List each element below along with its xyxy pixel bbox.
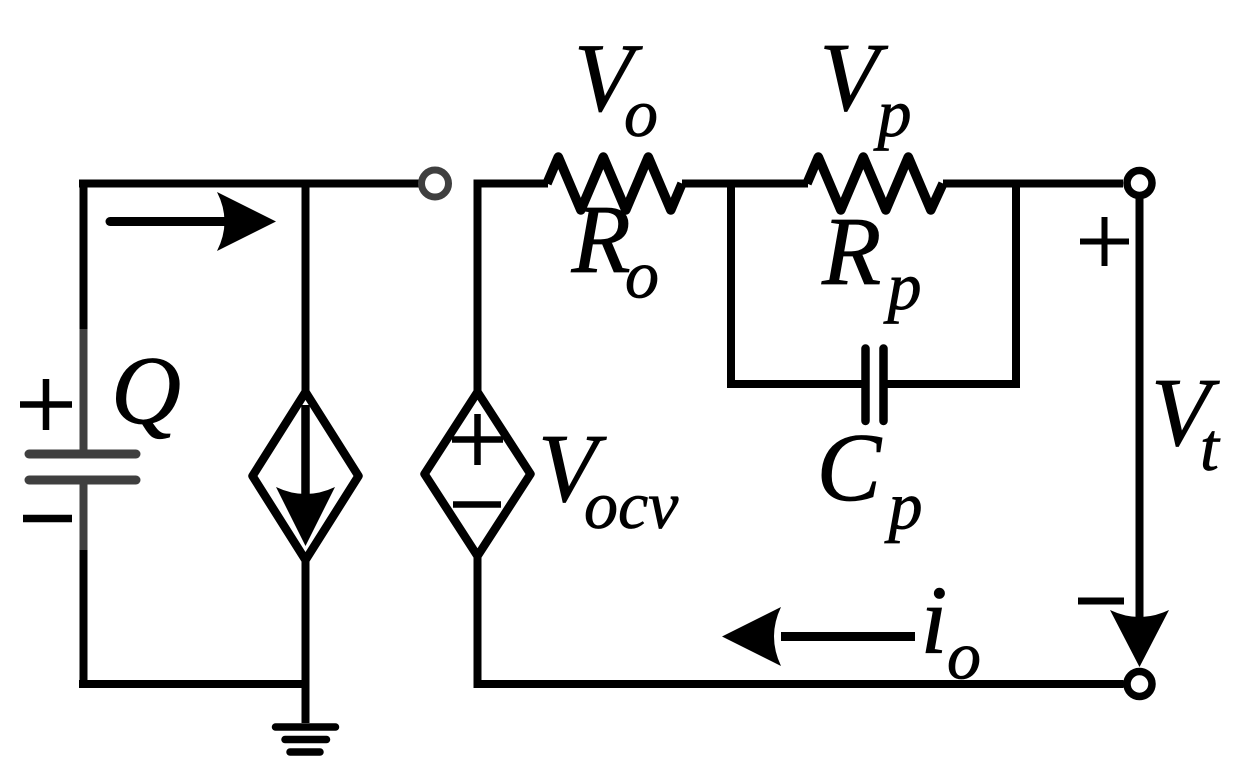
svg-text:p: p bbox=[884, 248, 922, 324]
current i_o arrow shaft bbox=[781, 632, 915, 641]
right vertical wire bbox=[1136, 195, 1144, 625]
node terminal circle (gray, top left) bbox=[422, 170, 449, 197]
wire top-left horizontal (node A to terminal) bbox=[79, 180, 419, 188]
resistor R_p zigzag bbox=[807, 157, 943, 210]
svg-text:C: C bbox=[817, 414, 883, 521]
capacitor C_p left plate bbox=[861, 349, 870, 422]
svg-text:Q: Q bbox=[111, 337, 181, 444]
terminal circle top right (black) bbox=[1127, 171, 1152, 196]
minus sign of capacitor Q bbox=[23, 515, 72, 523]
RC block right vertical branch and bottom wire to C_p bbox=[888, 180, 1017, 385]
svg-text:t: t bbox=[1200, 409, 1221, 485]
wire left vertical black lower segment bbox=[80, 550, 88, 684]
voltage source V_ocv diamond bbox=[425, 392, 531, 556]
resistor R_o zigzag bbox=[547, 157, 682, 210]
wire left vertical gray upper segment (to capacitor Q) bbox=[80, 329, 88, 452]
wire from R_p to right terminal bbox=[943, 180, 1123, 188]
current direction arrow (top left) shaft bbox=[110, 217, 228, 226]
minus sign inside V_ocv bbox=[453, 501, 501, 508]
svg-text:p: p bbox=[885, 468, 923, 544]
bottom wire left loop bbox=[79, 680, 310, 688]
dependent current source diamond bbox=[253, 392, 359, 560]
voltage source V_ocv stem bottom bbox=[474, 554, 482, 684]
wire left vertical gray lower segment bbox=[80, 482, 88, 550]
svg-text:ocv: ocv bbox=[584, 467, 679, 543]
ground bar 3 bbox=[290, 748, 320, 756]
plus sign of capacitor Q bbox=[20, 379, 72, 430]
svg-text:p: p bbox=[874, 75, 912, 151]
wire left vertical black upper segment bbox=[80, 184, 88, 330]
capacitor Q bottom plate bbox=[29, 476, 136, 485]
RC block left vertical branch and bottom wire to C_p bbox=[731, 180, 862, 385]
minus sign of V_t bbox=[1078, 598, 1124, 605]
ground bar 1 bbox=[276, 723, 336, 731]
svg-text:o: o bbox=[624, 75, 658, 151]
dependent current source stem bottom bbox=[302, 558, 310, 723]
svg-text:o: o bbox=[947, 618, 981, 694]
svg-text:i: i bbox=[921, 567, 948, 674]
arrow head down to bottom terminal bbox=[1110, 610, 1169, 667]
capacitor C_p right plate bbox=[879, 349, 888, 422]
plus sign inside V_ocv bbox=[452, 414, 503, 465]
terminal circle bottom right (black) bbox=[1127, 672, 1152, 697]
dependent current source inner arrow shaft bbox=[301, 405, 310, 498]
current direction arrow head bbox=[217, 192, 276, 251]
bottom wire right loop bbox=[474, 680, 1124, 688]
dependent current source stem top bbox=[302, 180, 310, 395]
capacitor Q top plate bbox=[29, 450, 136, 459]
wire top from V_ocv corner to resistor Ro bbox=[474, 180, 549, 188]
svg-text:o: o bbox=[625, 237, 659, 313]
svg-text:R: R bbox=[571, 186, 631, 293]
dependent current source inner arrow head bbox=[276, 487, 335, 546]
plus sign of V_t bbox=[1080, 217, 1129, 266]
current i_o arrow head bbox=[722, 607, 781, 666]
voltage source V_ocv stem top bbox=[474, 180, 482, 395]
wire between R_o and R_p bbox=[682, 180, 808, 188]
ground bar 2 bbox=[285, 736, 327, 744]
svg-text:R: R bbox=[821, 198, 881, 305]
